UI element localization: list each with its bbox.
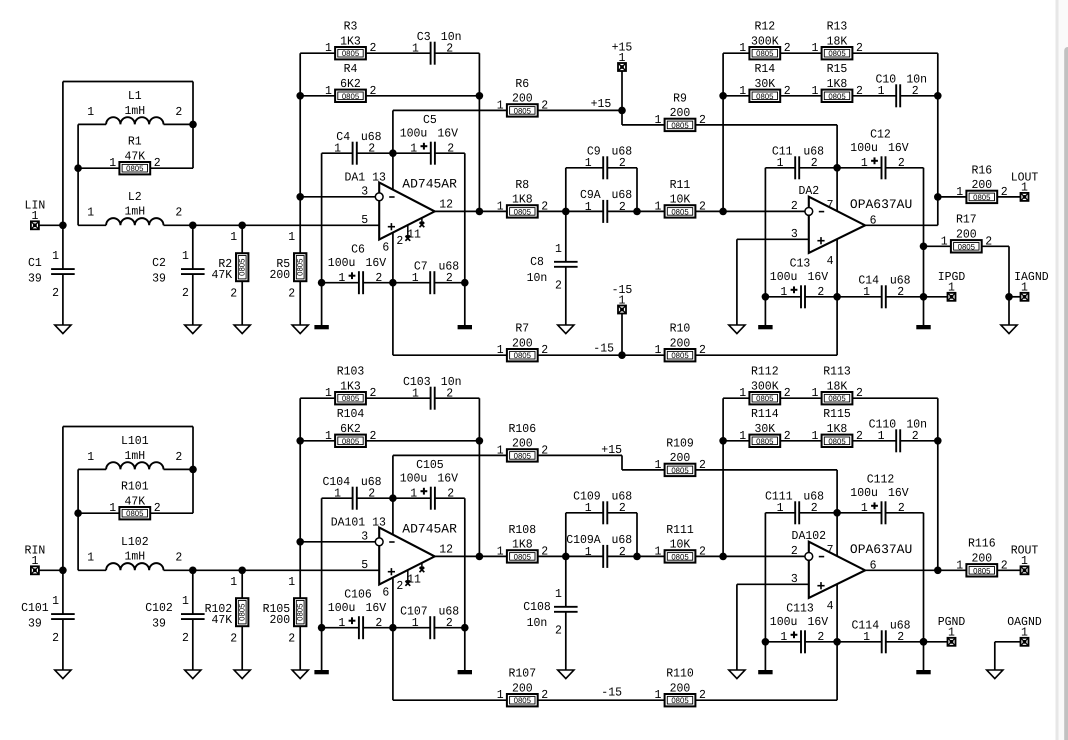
capacitor C109 — [573, 489, 632, 524]
wire feedback column 2 — [722, 398, 724, 556]
wire +15 stub — [621, 71, 623, 110]
capacitor C6 — [328, 243, 387, 295]
wire — [434, 627, 464, 629]
svg-text:R6: R6 — [515, 77, 529, 91]
svg-text:-15: -15 — [593, 342, 614, 356]
ground — [185, 670, 201, 679]
svg-text:1: 1 — [878, 429, 885, 443]
wire — [1008, 246, 1010, 296]
svg-text:16V: 16V — [808, 270, 829, 284]
power ground — [916, 670, 930, 674]
svg-text:1K8: 1K8 — [827, 77, 848, 91]
wire — [464, 153, 466, 283]
capacitor C111 — [765, 489, 824, 524]
wire — [538, 555, 566, 557]
junction — [318, 279, 326, 287]
svg-text:2: 2 — [396, 579, 403, 593]
wire — [241, 281, 243, 325]
svg-text:C113: C113 — [786, 602, 814, 616]
wire — [321, 498, 323, 628]
wire feedback column — [299, 398, 301, 598]
wire — [852, 397, 937, 399]
wire — [805, 641, 837, 643]
svg-text:-15: -15 — [601, 685, 622, 699]
wire — [366, 397, 431, 399]
svg-text:1: 1 — [410, 487, 417, 501]
wire +supply column — [392, 110, 394, 189]
power ground — [314, 325, 328, 329]
svg-text:12: 12 — [439, 542, 453, 556]
svg-text:R114: R114 — [751, 407, 779, 421]
capacitor C110 — [869, 417, 928, 452]
wire — [150, 512, 193, 514]
svg-text:1: 1 — [555, 587, 562, 601]
svg-text:0805: 0805 — [514, 552, 532, 561]
resistor R105 — [263, 575, 307, 645]
svg-text:1: 1 — [230, 575, 237, 589]
svg-text:0805: 0805 — [514, 351, 532, 360]
wire — [241, 626, 243, 670]
junction — [389, 149, 397, 157]
junction — [833, 164, 841, 172]
svg-text:R7: R7 — [515, 322, 529, 336]
resistor R7 — [497, 322, 548, 362]
resistor R101 — [109, 480, 160, 520]
svg-text:R1: R1 — [128, 135, 142, 149]
power ground — [758, 670, 772, 674]
wire -15 rail — [393, 354, 507, 356]
svg-text:1: 1 — [655, 199, 662, 213]
net label -15 — [593, 342, 614, 356]
svg-text:R113: R113 — [823, 365, 851, 379]
wire -supply column — [392, 233, 394, 356]
resistor R110 — [655, 667, 706, 707]
svg-text:R110: R110 — [666, 667, 694, 681]
junction — [389, 279, 397, 287]
svg-text:0805: 0805 — [514, 106, 532, 115]
wire — [62, 619, 64, 670]
net label +15 — [591, 97, 612, 111]
svg-text:5: 5 — [361, 558, 368, 572]
svg-text:39: 39 — [152, 616, 166, 630]
connector LIN — [25, 199, 46, 230]
svg-text:1mH: 1mH — [124, 449, 145, 463]
svg-text:47K: 47K — [212, 268, 233, 282]
svg-text:16V: 16V — [808, 615, 829, 629]
svg-text:100u: 100u — [770, 270, 798, 284]
svg-text:200: 200 — [670, 451, 691, 465]
junction — [189, 222, 197, 230]
svg-text:DA101 13: DA101 13 — [331, 516, 386, 530]
svg-text:R101: R101 — [121, 480, 149, 494]
svg-text:R115: R115 — [823, 407, 851, 421]
svg-text:R11: R11 — [670, 178, 691, 192]
svg-text:L1: L1 — [128, 89, 142, 103]
svg-text:R116: R116 — [968, 537, 996, 551]
capacitor C112 — [850, 473, 909, 525]
wire — [607, 210, 637, 212]
resistor R17 — [941, 213, 992, 253]
svg-text:10K: 10K — [670, 538, 691, 552]
svg-text:1: 1 — [288, 575, 295, 589]
capacitor C107 — [400, 604, 459, 639]
junction — [633, 553, 641, 561]
wire — [435, 152, 465, 154]
resistor R13 — [812, 20, 863, 60]
svg-text:R9: R9 — [673, 91, 687, 105]
capacitor C13 — [770, 257, 829, 309]
junction — [238, 222, 246, 230]
svg-text:5: 5 — [361, 213, 368, 227]
svg-text:1mH: 1mH — [124, 205, 145, 219]
svg-text:C108: C108 — [523, 600, 551, 614]
ground — [185, 325, 201, 334]
junction — [318, 624, 326, 632]
wire — [938, 196, 967, 198]
svg-text:200: 200 — [512, 92, 533, 106]
junction — [618, 107, 626, 115]
svg-text:0805: 0805 — [342, 437, 360, 446]
svg-text:+15: +15 — [591, 97, 612, 111]
wire +15 rail — [538, 109, 622, 111]
svg-text:1: 1 — [739, 429, 746, 443]
svg-text:1: 1 — [780, 285, 787, 299]
svg-text:C2: C2 — [152, 256, 166, 270]
resistor R107 — [497, 667, 548, 707]
capacitor C4 — [334, 130, 382, 165]
svg-text:11: 11 — [407, 572, 421, 586]
svg-text:DA1 13: DA1 13 — [345, 171, 386, 185]
wire — [994, 642, 996, 670]
capacitor C101 — [21, 594, 75, 645]
wire — [63, 81, 193, 83]
svg-text:1: 1 — [182, 594, 189, 608]
wire — [192, 225, 194, 269]
junction — [1005, 293, 1013, 301]
svg-text:0805: 0805 — [514, 696, 532, 705]
wire — [886, 296, 924, 298]
wire jog +15 — [621, 110, 623, 125]
svg-text:6: 6 — [382, 241, 389, 255]
svg-text:200: 200 — [670, 336, 691, 350]
resistor R15 — [812, 62, 863, 102]
svg-text:47K: 47K — [124, 149, 145, 163]
svg-text:IAGND: IAGND — [1014, 270, 1049, 284]
svg-text:100u: 100u — [328, 256, 356, 270]
wire — [464, 498, 466, 628]
wire — [62, 82, 64, 226]
svg-text:0805: 0805 — [828, 437, 846, 446]
svg-text:L2: L2 — [128, 190, 142, 204]
wire feedback right column — [478, 398, 480, 556]
svg-text:C13: C13 — [790, 257, 811, 271]
junction — [461, 279, 469, 287]
svg-text:1: 1 — [655, 688, 662, 702]
wire — [357, 152, 393, 154]
wire — [723, 95, 749, 97]
svg-text:L101: L101 — [121, 434, 149, 448]
wire — [924, 245, 952, 247]
wire — [366, 440, 480, 442]
svg-text:200: 200 — [512, 336, 533, 350]
wire to op-amp +input — [164, 224, 380, 226]
ground — [234, 325, 250, 334]
junction — [633, 208, 641, 216]
wire — [393, 497, 431, 499]
wire — [435, 397, 480, 399]
wire — [63, 426, 193, 428]
wire — [924, 296, 948, 298]
svg-text:100u: 100u — [770, 615, 798, 629]
svg-text:1: 1 — [780, 630, 787, 644]
svg-text:1: 1 — [1021, 181, 1028, 195]
svg-text:39: 39 — [28, 616, 42, 630]
svg-text:C1: C1 — [28, 256, 42, 270]
svg-text:1: 1 — [412, 387, 419, 401]
wire feedback column — [299, 53, 301, 253]
svg-text:1: 1 — [585, 200, 592, 214]
connector +15 — [612, 40, 633, 71]
svg-text:2: 2 — [791, 544, 798, 558]
wire — [321, 283, 323, 325]
junction — [833, 293, 841, 301]
capacitor C2 — [152, 249, 205, 300]
svg-text:16V: 16V — [888, 141, 909, 155]
svg-text:1: 1 — [585, 545, 592, 559]
svg-text:1K8: 1K8 — [512, 538, 533, 552]
capacitor C105 — [400, 458, 459, 510]
svg-text:1mH: 1mH — [124, 550, 145, 564]
wire — [565, 513, 567, 557]
capacitor C10 — [876, 72, 928, 107]
svg-text:1: 1 — [777, 156, 784, 170]
power ground — [458, 670, 472, 674]
wire — [565, 168, 567, 212]
wire — [736, 239, 738, 325]
svg-text:1: 1 — [739, 84, 746, 98]
svg-text:OPA637AU: OPA637AU — [850, 542, 912, 557]
svg-text:L102: L102 — [121, 535, 149, 549]
wire — [723, 440, 749, 442]
junction — [189, 121, 197, 129]
svg-text:AD745AR: AD745AR — [402, 177, 457, 192]
wire — [566, 210, 603, 212]
wire — [765, 641, 801, 643]
wire -supply column 2 — [836, 239, 838, 355]
wire — [321, 628, 323, 670]
wire — [637, 210, 665, 212]
resistor R16 — [956, 163, 1007, 203]
connector OAGND — [1007, 615, 1042, 646]
wire — [363, 282, 393, 284]
svg-text:0805: 0805 — [296, 258, 305, 276]
junction — [562, 553, 570, 561]
svg-text:1: 1 — [863, 285, 870, 299]
svg-text:R112: R112 — [751, 365, 779, 379]
wire output 2 — [865, 224, 938, 226]
svg-text:R14: R14 — [754, 62, 775, 76]
svg-text:11: 11 — [407, 227, 421, 241]
wire — [886, 641, 924, 643]
svg-text:2: 2 — [175, 450, 182, 464]
svg-text:1: 1 — [655, 343, 662, 357]
wire — [982, 245, 1009, 247]
wire — [799, 167, 837, 169]
junction — [296, 193, 304, 201]
resistor R108 — [497, 523, 548, 563]
svg-text:1: 1 — [31, 554, 38, 568]
wire — [192, 619, 194, 670]
svg-text:0805: 0805 — [756, 49, 774, 58]
wire — [78, 512, 119, 514]
wire -supply column — [392, 578, 394, 701]
svg-text:0805: 0805 — [671, 552, 689, 561]
capacitor C114 — [852, 618, 911, 653]
wire — [805, 296, 837, 298]
svg-text:C6: C6 — [351, 243, 365, 257]
svg-text:7: 7 — [827, 198, 834, 212]
wire — [565, 556, 567, 606]
svg-text:R3: R3 — [344, 20, 358, 34]
svg-text:16V: 16V — [437, 472, 458, 486]
junction — [476, 437, 484, 445]
ground — [729, 325, 745, 334]
wire — [622, 124, 665, 126]
wire — [300, 52, 335, 54]
junction — [762, 293, 770, 301]
node RIN — [59, 567, 67, 575]
svg-text:1: 1 — [863, 630, 870, 644]
label DA1 pin 13 — [345, 171, 386, 185]
scrollbar thumb — [1064, 47, 1068, 740]
svg-text:1: 1 — [1021, 281, 1028, 295]
wire RIN input — [39, 569, 63, 571]
svg-text:200: 200 — [971, 178, 992, 192]
svg-text:200: 200 — [512, 681, 533, 695]
svg-text:1: 1 — [412, 271, 419, 285]
svg-text:0805: 0805 — [671, 351, 689, 360]
capacitor C1 — [28, 249, 75, 300]
junction — [762, 638, 770, 646]
wire — [566, 555, 603, 557]
svg-text:1: 1 — [941, 234, 948, 248]
power ground — [314, 670, 328, 674]
svg-text:1: 1 — [497, 343, 504, 357]
label DA102 — [792, 529, 827, 543]
svg-text:1: 1 — [412, 42, 419, 56]
svg-text:1: 1 — [338, 271, 345, 285]
wire to DA101 pin 3 — [300, 541, 375, 543]
wire — [765, 167, 795, 169]
capacitor C7 — [412, 259, 460, 294]
wire — [837, 512, 881, 514]
wire — [241, 225, 243, 253]
junction — [389, 624, 397, 632]
svg-text:2: 2 — [182, 286, 189, 300]
wire output — [435, 555, 507, 557]
svg-text:6K2: 6K2 — [340, 422, 361, 436]
svg-text:4: 4 — [827, 254, 834, 268]
svg-text:7: 7 — [827, 543, 834, 557]
svg-text:1: 1 — [555, 242, 562, 256]
wire — [77, 124, 79, 225]
svg-text:1: 1 — [52, 594, 59, 608]
svg-text:1: 1 — [87, 206, 94, 220]
svg-text:R111: R111 — [666, 523, 694, 537]
junction — [719, 92, 727, 100]
wire — [636, 513, 638, 557]
svg-text:2: 2 — [230, 286, 237, 300]
svg-text:2: 2 — [175, 105, 182, 119]
wire — [366, 52, 431, 54]
junction — [296, 538, 304, 546]
resistor R104 — [325, 407, 376, 447]
wire — [780, 52, 821, 54]
wire — [852, 52, 937, 54]
svg-text:1: 1 — [777, 501, 784, 515]
svg-text:4: 4 — [827, 599, 834, 613]
wire — [723, 52, 749, 54]
wire — [852, 440, 896, 442]
op-amp DA101 — [361, 522, 457, 600]
resistor R9 — [655, 91, 706, 131]
wire — [435, 52, 480, 54]
svg-text:6: 6 — [382, 586, 389, 600]
wire — [607, 167, 637, 169]
wire — [780, 440, 821, 442]
wire ground column — [764, 513, 766, 670]
resistor R2 — [212, 230, 249, 300]
svg-text:0805: 0805 — [514, 207, 532, 216]
wire — [566, 167, 603, 169]
wire — [565, 267, 567, 325]
power ground — [916, 325, 930, 329]
svg-text:1: 1 — [325, 429, 332, 443]
wire — [723, 397, 749, 399]
ground — [292, 670, 308, 679]
junction — [74, 164, 82, 172]
svg-text:1: 1 — [956, 558, 963, 572]
svg-text:1: 1 — [956, 185, 963, 199]
wire — [299, 281, 301, 325]
svg-text:R104: R104 — [337, 407, 365, 421]
junction — [476, 92, 484, 100]
label DA101 pin 13 — [331, 516, 386, 530]
wire ground column 2 — [923, 513, 925, 670]
wire — [538, 699, 665, 701]
svg-text:1: 1 — [861, 501, 868, 515]
svg-text:1: 1 — [739, 41, 746, 55]
ground — [292, 325, 308, 334]
inductor L102 — [87, 535, 182, 570]
wire — [997, 196, 1020, 198]
svg-text:1: 1 — [1021, 554, 1028, 568]
connector IPGD — [938, 270, 966, 301]
wire — [837, 296, 882, 298]
svg-text:1: 1 — [585, 501, 592, 515]
svg-text:R10: R10 — [670, 322, 691, 336]
wire — [363, 627, 393, 629]
svg-text:12: 12 — [439, 197, 453, 211]
svg-text:1mH: 1mH — [124, 104, 145, 118]
wire output column — [937, 53, 939, 225]
wire to DA2 pin 2 — [695, 210, 805, 212]
svg-text:16V: 16V — [366, 256, 387, 270]
junction — [934, 437, 942, 445]
wire — [192, 274, 194, 325]
svg-text:1: 1 — [812, 386, 819, 400]
svg-text:R109: R109 — [666, 436, 694, 450]
